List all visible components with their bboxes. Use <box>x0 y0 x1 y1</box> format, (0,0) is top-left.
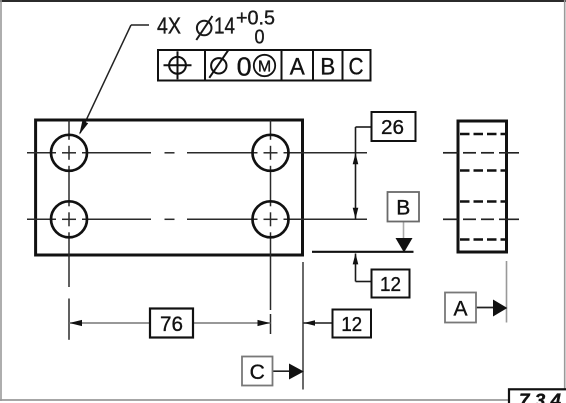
datum C triangle <box>289 364 304 380</box>
datum A triangle <box>493 300 507 317</box>
datum C extension line (right edge extended) <box>302 262 304 390</box>
dimension box 12 (right edge to right column) <box>333 310 372 338</box>
dimension 12 arrowhead <box>353 253 359 264</box>
svg-text:0: 0 <box>237 51 252 81</box>
svg-text:M: M <box>258 58 271 75</box>
side view hidden line hole bottom edge upper <box>460 169 505 171</box>
hole top-left <box>51 135 87 171</box>
hole bottom-right <box>253 201 289 237</box>
dimension 12 horizontal arrowhead <box>304 320 315 326</box>
svg-text:B: B <box>320 53 335 80</box>
dimension box 76 <box>150 309 193 338</box>
svg-text:12: 12 <box>380 274 401 296</box>
position symbol in FCF <box>164 51 192 79</box>
datum B box <box>388 192 420 222</box>
datum A extension line (side view right face extended) <box>506 261 508 323</box>
feature control frame outer box <box>158 50 371 81</box>
FCF tolerance Ø 0 (M) <box>209 50 228 78</box>
dimension box 12 (bottom edge to lower row) <box>372 270 410 298</box>
vertical center line right hole column <box>270 120 272 334</box>
side view center line lower row <box>443 218 519 220</box>
side view hidden line hole bottom edge lower <box>460 238 505 240</box>
dimension 26 leader and dimension line <box>356 127 372 219</box>
hole bottom-left <box>51 201 87 237</box>
svg-text:A: A <box>290 53 305 80</box>
side view outline <box>458 121 507 252</box>
dimension 12 vertical leader with arrow <box>356 254 372 282</box>
horizontal center line lower hole row <box>27 218 367 220</box>
datum C box <box>242 357 273 386</box>
svg-text:C: C <box>250 361 265 384</box>
svg-text:B: B <box>396 197 410 220</box>
leader arrowhead <box>79 121 88 135</box>
dimension 26 arrowheads <box>353 153 359 219</box>
datum A leader <box>476 307 494 309</box>
dimension 76 arrowheads <box>69 320 270 326</box>
datum B leader <box>403 222 405 240</box>
svg-text:4X: 4X <box>157 13 181 39</box>
datum A box <box>445 293 476 323</box>
modifier circle M <box>254 55 275 76</box>
dimension 76 dimension line <box>69 322 271 324</box>
side view hidden line hole top edge upper <box>460 133 505 135</box>
svg-text:0: 0 <box>255 27 265 49</box>
svg-text:12: 12 <box>341 314 362 336</box>
leader line from callout to top-left hole <box>80 25 149 133</box>
dimension 12 horizontal arrow <box>304 322 333 324</box>
front view plate outline <box>36 120 303 255</box>
figure number box 7.3.4 <box>509 389 566 403</box>
svg-text:C: C <box>349 53 364 80</box>
vertical center line left hole column <box>68 120 70 340</box>
side view hidden line hole top edge lower <box>460 200 505 202</box>
svg-text:A: A <box>453 298 467 321</box>
datum B extension line (bottom edge extended) <box>312 251 414 253</box>
diameter symbol of callout <box>196 16 212 40</box>
side view center line upper row <box>443 152 519 154</box>
horizontal center line upper hole row <box>27 152 367 154</box>
svg-text:26: 26 <box>381 117 404 139</box>
svg-text:76: 76 <box>160 312 183 336</box>
dimension box 26 <box>372 112 416 141</box>
hole callout text 4X Ø14 +0.5/0 <box>157 8 275 49</box>
svg-text:14: 14 <box>214 13 235 39</box>
datum C leader <box>273 370 291 372</box>
datum B triangle <box>396 238 413 253</box>
hole top-right <box>253 135 289 171</box>
svg-text:7.3.4: 7.3.4 <box>519 391 561 403</box>
